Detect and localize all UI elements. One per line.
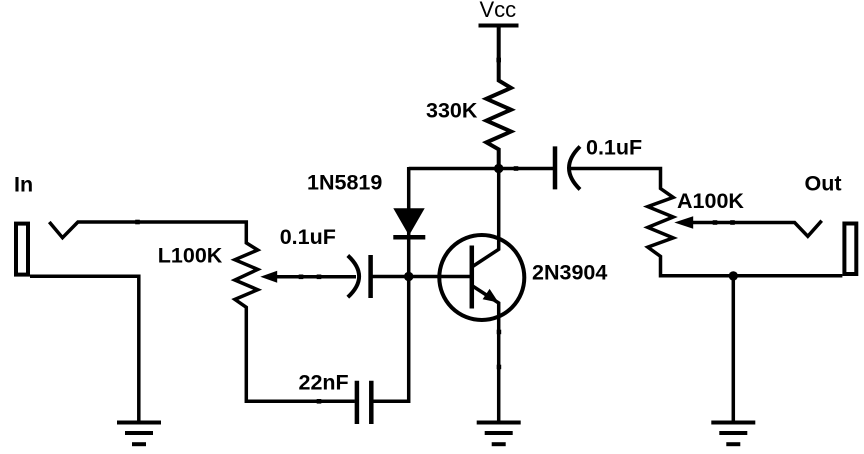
svg-text:In: In xyxy=(14,173,33,197)
svg-text:22nF: 22nF xyxy=(299,371,349,395)
svg-text:0.1uF: 0.1uF xyxy=(280,225,336,249)
svg-text:0.1uF: 0.1uF xyxy=(586,135,642,159)
svg-text:1N5819: 1N5819 xyxy=(307,170,382,194)
svg-text:2N3904: 2N3904 xyxy=(532,260,607,284)
svg-text:Out: Out xyxy=(805,172,842,196)
svg-text:L100K: L100K xyxy=(158,244,223,268)
svg-text:330K: 330K xyxy=(426,99,478,123)
svg-text:A100K: A100K xyxy=(677,189,744,213)
svg-text:Vcc: Vcc xyxy=(480,0,517,22)
